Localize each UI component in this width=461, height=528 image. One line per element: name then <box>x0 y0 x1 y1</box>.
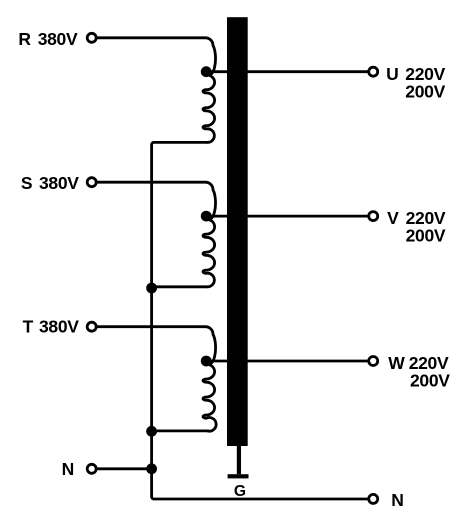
svg-text:380V: 380V <box>38 29 78 49</box>
svg-text:N: N <box>391 490 404 510</box>
svg-text:W: W <box>388 353 405 373</box>
svg-text:G: G <box>234 483 246 500</box>
svg-text:380V: 380V <box>39 173 79 193</box>
svg-text:U: U <box>386 64 399 84</box>
svg-text:R: R <box>18 29 31 49</box>
svg-text:V: V <box>387 208 399 228</box>
svg-text:380V: 380V <box>39 317 79 337</box>
svg-text:N: N <box>62 459 75 479</box>
svg-text:200V: 200V <box>405 81 445 101</box>
svg-text:200V: 200V <box>410 370 450 390</box>
svg-text:T: T <box>23 317 34 337</box>
svg-text:S: S <box>21 173 33 193</box>
svg-text:200V: 200V <box>406 226 446 246</box>
